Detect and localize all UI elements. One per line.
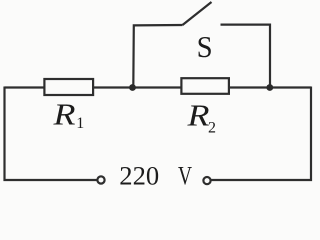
svg-text:V: V: [178, 161, 192, 191]
svg-text:S: S: [197, 29, 213, 64]
svg-text:R: R: [52, 96, 75, 131]
svg-text:220: 220: [119, 161, 159, 191]
svg-text:R: R: [186, 97, 209, 132]
svg-text:2: 2: [208, 119, 216, 136]
svg-text:1: 1: [76, 115, 84, 132]
